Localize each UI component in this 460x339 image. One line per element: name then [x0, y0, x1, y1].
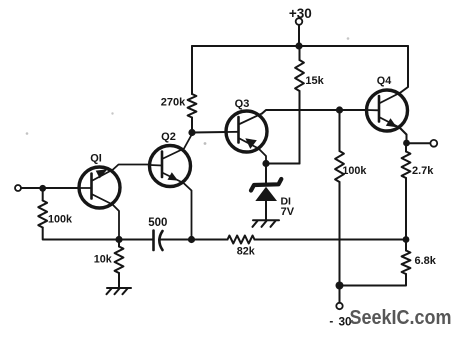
wire Q3 collector bus to Q4 base	[262, 110, 367, 114]
wire left drop to 270k	[191, 46, 193, 94]
wire 2.7k bottom to rail	[405, 178, 407, 240]
terminal -30	[336, 303, 342, 309]
scan speck	[26, 132, 29, 135]
node 2.7k / 6.8k / rail	[403, 236, 410, 243]
svg-text:7V: 7V	[281, 206, 295, 218]
wire node to Q3 base	[192, 131, 227, 134]
svg-text:82k: 82k	[237, 246, 256, 258]
svg-text:2.7k: 2.7k	[412, 165, 434, 177]
wire input lead to Q1 base	[21, 187, 80, 189]
wire 100k left bottom to rail corner	[43, 228, 153, 240]
node 270k / Q2 collector / Q3 base	[188, 129, 195, 136]
capacitor C 500 left plate	[152, 231, 155, 251]
wire +30 terminal lead	[298, 26, 300, 47]
resistor R 100k right	[335, 151, 344, 182]
wire 100k right bottom long drop to -30 node	[339, 182, 341, 286]
resistor R 270k	[188, 94, 197, 118]
svg-text:SeekIC.com: SeekIC.com	[350, 306, 452, 329]
zener diode D1 anode triangle	[255, 187, 277, 201]
wire zener bottom lead	[265, 201, 267, 220]
wire top rail +30 bus	[192, 45, 408, 47]
scan speck	[111, 112, 113, 114]
ground symbol under zener D1	[253, 220, 280, 227]
svg-text:6.8k: 6.8k	[414, 255, 436, 267]
terminal input	[15, 185, 21, 191]
wire 100k right top lead	[339, 110, 341, 151]
node Q4 emitter / output	[403, 140, 410, 147]
transistor Q3	[226, 111, 267, 164]
resistor R 100k left	[38, 201, 47, 228]
ground symbol under 10k	[107, 288, 132, 294]
node input junction	[39, 185, 46, 192]
wire 10k bottom to ground	[118, 273, 120, 288]
wire 2.7k top lead	[405, 143, 407, 152]
svg-text:10k: 10k	[94, 253, 113, 265]
wire 15k bottom down to zener node level	[299, 91, 301, 164]
resistor R 82k	[228, 236, 255, 244]
wire 100k left top lead	[42, 188, 44, 200]
wire 6.8k leads and bottom return to -30 node	[405, 240, 407, 251]
wire 10k top lead from rail node	[118, 240, 120, 247]
terminal output	[430, 140, 437, 147]
svg-text:Q2: Q2	[161, 131, 176, 143]
node Q1 emitter / 10k	[115, 236, 122, 243]
wire Q4 emitter to output node	[400, 128, 407, 144]
wire 15k drop from rail	[299, 46, 301, 60]
svg-text:Q3: Q3	[235, 98, 250, 110]
wire bottom rail 82k to right node	[255, 239, 407, 241]
terminal +30	[296, 18, 303, 25]
wire zener top lead	[265, 164, 267, 185]
svg-text:+30: +30	[289, 6, 312, 21]
node Q3 emitter / zener	[262, 160, 269, 167]
wire zener node to 15k line	[266, 163, 300, 165]
wire 270k bottom to node	[191, 118, 193, 133]
svg-text:Q4: Q4	[377, 75, 391, 87]
scan speck	[347, 37, 350, 40]
wire bottom rail right of capacitor to 82k	[159, 239, 228, 241]
node +30 rail junction	[295, 42, 302, 49]
wire -30 terminal lead	[339, 286, 341, 304]
svg-text:15k: 15k	[305, 75, 324, 87]
wire output lead	[407, 142, 431, 144]
svg-text:-: -	[329, 314, 333, 328]
resistor R 15k	[295, 60, 304, 91]
wire Q4 collector riser	[401, 46, 409, 93]
node Q2 emitter / rail	[188, 236, 195, 243]
resistor R 6.8k	[402, 251, 411, 275]
node -30 return	[336, 282, 344, 290]
transistor Q2	[150, 134, 193, 240]
svg-text:500: 500	[148, 217, 167, 229]
capacitor C 500 right curved plate	[159, 231, 162, 250]
svg-text:100k: 100k	[48, 213, 73, 225]
svg-text:100k: 100k	[342, 165, 367, 177]
transistor Q1	[79, 165, 150, 240]
resistor R 10k	[115, 247, 124, 274]
zener diode D1 cathode bar	[251, 179, 281, 191]
transistor Q4	[367, 90, 408, 135]
node Q3 collector bus / 100k	[336, 106, 343, 113]
svg-text:270k: 270k	[161, 97, 186, 109]
svg-text:QI: QI	[90, 153, 102, 165]
scan speck	[204, 142, 207, 145]
resistor R 2.7k	[402, 152, 411, 179]
